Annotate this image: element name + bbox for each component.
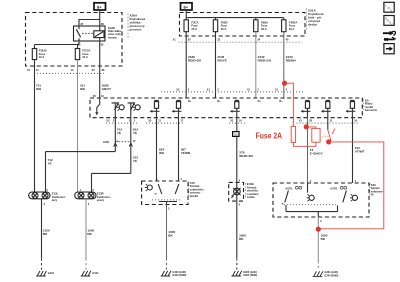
svg-text:VT/WT: VT/WT [355,150,365,154]
module driver symbol (pin X1-20) [301,100,311,117]
svg-text:WH: WH [80,87,86,91]
fuse F34DA [282,20,298,32]
connector row X1 below fuse box 2 [173,38,302,42]
relay pin 87 jumper wire [79,20,100,27]
label E10B [246,182,259,199]
svg-text:karosérie: karosérie [365,108,377,112]
red text Fuse 2A [256,131,283,140]
svg-text:BK: BK [321,237,326,241]
svg-text:10 A: 10 A [82,55,88,59]
wire 812 YE label [133,128,138,136]
label headlamp E13L [52,192,67,203]
svg-text:RD/BN: RD/BN [286,59,297,63]
svg-text:YE: YE [133,131,137,135]
svg-text:AUTO: AUTO [330,187,337,190]
svg-text:E-GN/GY: E-GN/GY [310,152,324,156]
fuse F37JA [75,45,90,60]
relay K9JB [74,20,106,47]
module driver symbol (pin X3-11) [150,100,160,117]
red switch contact [326,129,335,145]
wire 1050 BK [86,199,95,270]
fuse F36JA [32,49,47,60]
svg-text:30 A: 30 A [289,27,295,31]
wire 2240 RD/BN [284,32,297,98]
connector row above body control module [161,89,303,92]
switch lever right [175,184,179,194]
ground G401 [36,271,54,276]
relay switch contact [79,26,100,41]
label relay K9JB [108,26,122,40]
svg-text:w: w [282,202,284,205]
indicator lamp symbol 2 inside module [128,103,141,118]
wire B+ to relay pin 86 [99,10,101,26]
B+ pin labels inside module [188,100,283,103]
fuse box X51A (instrument panel) dashed enclosure [180,13,306,37]
label K9 body control module [364,99,378,113]
wire lamp output 1 [46,118,116,192]
red relay component [304,124,320,142]
wire relay pin 85 down [99,41,101,98]
relay mechanical link [82,32,93,34]
svg-text:YE: YE [48,162,52,166]
wire 1650 BK (sensor) [237,201,246,270]
svg-text:BK: BK [43,232,48,236]
svg-text:30 A: 30 A [261,27,267,31]
wire 212 YE label [133,156,138,164]
off-page connector T10 [233,118,239,137]
fuse F6DA [213,20,227,32]
ground G201/G204 [313,271,339,277]
svg-text:G204 (RHD): G204 (RHD) [324,275,338,278]
wire stub pin 11 [327,118,329,130]
red overlay: tap junction on 2240 wire [282,81,293,127]
wire 2545 RD/D-BU [186,32,202,98]
svg-text:20 A: 20 A [191,27,197,31]
link dotted [284,204,337,206]
svg-text:WH: WH [36,87,42,91]
svg-text:G104: G104 [92,272,99,275]
wire B+ bus in fuse box 2 [186,10,284,20]
wire 2546 RD/YE [216,32,227,98]
connector X5 pin 16 entry [93,95,105,98]
B+ feed box 1 [94,3,106,10]
red fuse 2A symbol [291,126,316,146]
red wire run to switch ground [316,142,384,232]
indicator lamp symbol 1 inside module [112,103,125,118]
icon location box [384,2,394,12]
wire lamp output 2 [92,118,131,192]
svg-text:pravý: pravý [97,198,105,202]
svg-text:přední: přední [190,194,198,198]
wire 712 YE label (after connector) [48,158,53,166]
driver output arrow symbol (X5-16 input) [95,98,100,115]
fuse F9BA [254,20,268,32]
svg-text:B+: B+ [279,100,283,103]
svg-text:BK: BK [168,234,173,238]
svg-text:BK: BK [239,237,244,241]
svg-text:20 A: 20 A [221,27,227,31]
relay coil [94,31,104,38]
B+ feed box 2 [181,3,193,10]
ground G104 [81,271,99,276]
headlamp E13L [29,189,50,206]
svg-text:světla: světla [247,195,255,199]
svg-text:w: w [155,193,157,196]
wire 13 E-GN/GY [308,118,324,183]
svg-text:YE: YE [117,131,121,135]
module driver symbol (pin 11) [321,100,331,117]
svg-text:tů: tů [371,193,374,197]
svg-text:WH: WH [159,151,165,155]
wire fuse F37JA to headlamp right [77,60,79,192]
svg-text:10 A: 10 A [39,55,45,59]
wire 367 YE/BN [179,118,191,181]
sensor switch S79 dashed enclosure [142,178,188,204]
svg-text:G304 (RHD): G304 (RHD) [172,274,186,277]
svg-text:RD/D-GN: RD/D-GN [258,59,272,63]
wire 824 WH [157,118,165,181]
module driver symbol (pin 17) [172,100,182,117]
wire 1000 BK [167,205,176,270]
headlamp switch S30 dashed enclosure [273,180,369,217]
module driver symbol (pin 16) [346,100,356,117]
svg-text:B+: B+ [188,100,192,103]
wire 711 WH label [36,84,42,92]
wire 712 YE label [117,128,122,136]
wire fuse F36JA to headlamp left [34,60,36,192]
orange mechanical link [320,135,328,137]
lamp glyph [147,185,152,190]
headlamp E13R [75,189,96,206]
svg-text:B+: B+ [217,100,221,103]
wire 311 WH label [80,84,86,92]
label S79 [189,181,204,198]
svg-text:RD/YE: RD/YE [217,59,226,63]
svg-text:Fuse 2A: Fuse 2A [256,131,283,140]
svg-text:AUTO: AUTO [285,187,292,190]
svg-text:GN/VT: GN/VT [102,87,112,91]
wire relay pin 30 to fuses [35,41,80,49]
label S30 [370,183,384,197]
icon description box [384,16,394,27]
fuse F3CA [184,20,198,32]
bottom bus [286,205,338,217]
switch lever left [158,184,162,194]
label X50A fuse box [128,14,145,40]
connector rows below module [106,119,138,123]
svg-text:WH/D-BU: WH/D-BU [239,154,254,158]
svg-text:C: C [390,8,392,12]
inline connector X108 [103,140,136,147]
icon next arrow box [384,44,394,54]
svg-text:X108: X108 [103,141,109,144]
svg-text:prostor): prostor) [130,28,142,32]
wire 3068 GN/VT label [102,84,112,92]
ambient light sensor E10B dashed enclosure [229,180,244,207]
ground G303/G304 (sensor) [232,271,258,277]
ground G303/G304 [161,271,187,277]
fuse box X50A (engine compartment) dashed enclosure [26,13,123,67]
svg-text:G401: G401 [48,272,55,275]
svg-text:lometu: lometu [108,35,117,39]
svg-text:YE/BN: YE/BN [181,151,191,155]
icon repair arrows [383,31,396,41]
svg-text:G304 (RHD): G304 (RHD) [243,274,257,277]
svg-text:YE: YE [133,159,137,163]
svg-text:RD/D-BU: RD/D-BU [188,59,202,63]
svg-text:B+: B+ [184,6,188,10]
svg-text:deska: deska [308,23,317,27]
connector row X1/X2 below fuse box 1 [27,69,105,73]
svg-text:B+: B+ [258,100,262,103]
wire 2440 RD/D-GN [256,32,272,98]
svg-text:B+: B+ [97,6,101,10]
module driver symbol (pin X2-19) [230,100,240,117]
svg-text:C: C [391,22,393,26]
svg-text:BK: BK [87,232,92,236]
label headlamp E13R [97,192,112,203]
wire 278 WH/D-BU [237,136,254,182]
label X51A fuse box [307,9,324,31]
svg-text:levý: levý [52,198,58,202]
wire 1650 BK (switch) [318,217,327,270]
wire 102 VT/WT [353,118,365,183]
body control module K9 dashed enclosure [90,98,362,118]
wire 1150 BK [42,199,50,270]
